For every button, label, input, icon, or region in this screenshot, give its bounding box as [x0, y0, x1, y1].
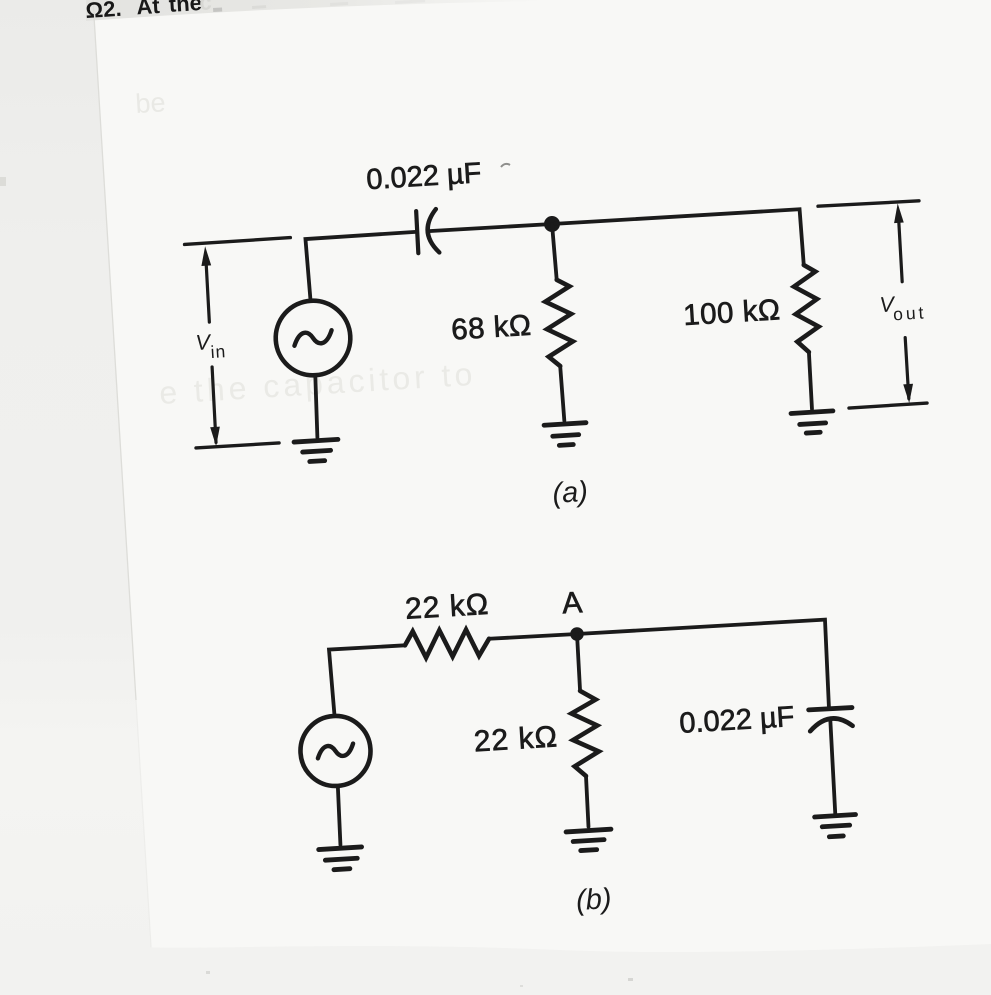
capacitor C1 0.022 uF (series)	[416, 211, 419, 253]
wire: left corner to series resistor	[329, 645, 409, 716]
ground (below V2)	[319, 847, 363, 871]
wire: R4 to ground	[585, 776, 589, 827]
ground (below V1)	[294, 439, 339, 462]
dimension arrow Vin (double-headed)	[205, 264, 217, 442]
cut-off heading text at top	[85, 0, 213, 23]
wire: V1 to ground	[314, 375, 319, 437]
svg-text:A: A	[561, 586, 583, 620]
resistor R3 22 kOhm (series, zigzag)	[404, 627, 490, 660]
wire: Vin dimension bottom stub line	[196, 443, 279, 448]
ground (below R4)	[566, 829, 612, 851]
svg-text:the: the	[168, 0, 202, 17]
svg-text:22 kΩ: 22 kΩ	[473, 720, 559, 758]
ground (below C2)	[815, 815, 857, 838]
wire: R1 to ground	[560, 366, 564, 421]
ground (below R1)	[544, 423, 587, 447]
svg-text:be: be	[135, 87, 167, 119]
wire: Vin dimension top stub line	[185, 238, 291, 245]
wire: R3 to node A	[489, 633, 577, 639]
wire: R2 to ground	[808, 352, 812, 409]
svg-text:At: At	[136, 0, 161, 19]
resistor R4 22 kOhm (shunt, zigzag)	[570, 690, 600, 777]
wire: node A to right corner down to capacitor	[577, 619, 830, 722]
resistor R2 100 kOhm (zigzag)	[793, 264, 820, 352]
svg-text:Ω2.: Ω2.	[85, 0, 122, 23]
capacitor C2 0.022 uF (shunt)	[809, 707, 852, 710]
svg-text:100 kΩ: 100 kΩ	[682, 293, 781, 332]
svg-text:(b): (b)	[575, 883, 612, 917]
voltage source V2 (AC)	[298, 714, 372, 788]
stray pen mark	[501, 164, 510, 167]
svg-text:(a): (a)	[552, 476, 589, 510]
wire: C2 to ground	[829, 719, 836, 813]
wire: V2 to ground	[337, 786, 342, 845]
wire: top rail from left corner to capacitor	[305, 232, 419, 301]
svg-text:22 kΩ: 22 kΩ	[404, 588, 490, 626]
svg-text:68 kΩ: 68 kΩ	[450, 309, 532, 347]
svg-text:c: c	[199, 0, 213, 15]
wire: capacitor to node	[429, 224, 552, 232]
ground (below R2)	[791, 411, 834, 434]
wire: node to right corner, down to R2	[552, 209, 804, 280]
voltage source V1 (AC)	[274, 298, 353, 377]
node junction dot	[544, 216, 561, 233]
resistor R1 68 kOhm (zigzag)	[544, 279, 574, 367]
node A junction dot	[570, 627, 584, 641]
wire: node A down to R4	[577, 634, 581, 691]
wire: Vout dimension bottom stub line	[849, 403, 927, 408]
dimension arrow Vout (double-headed)	[818, 200, 919, 207]
svg-text:in: in	[210, 341, 227, 362]
svg-text:out: out	[893, 302, 927, 324]
wire: node down to R1	[552, 224, 557, 280]
